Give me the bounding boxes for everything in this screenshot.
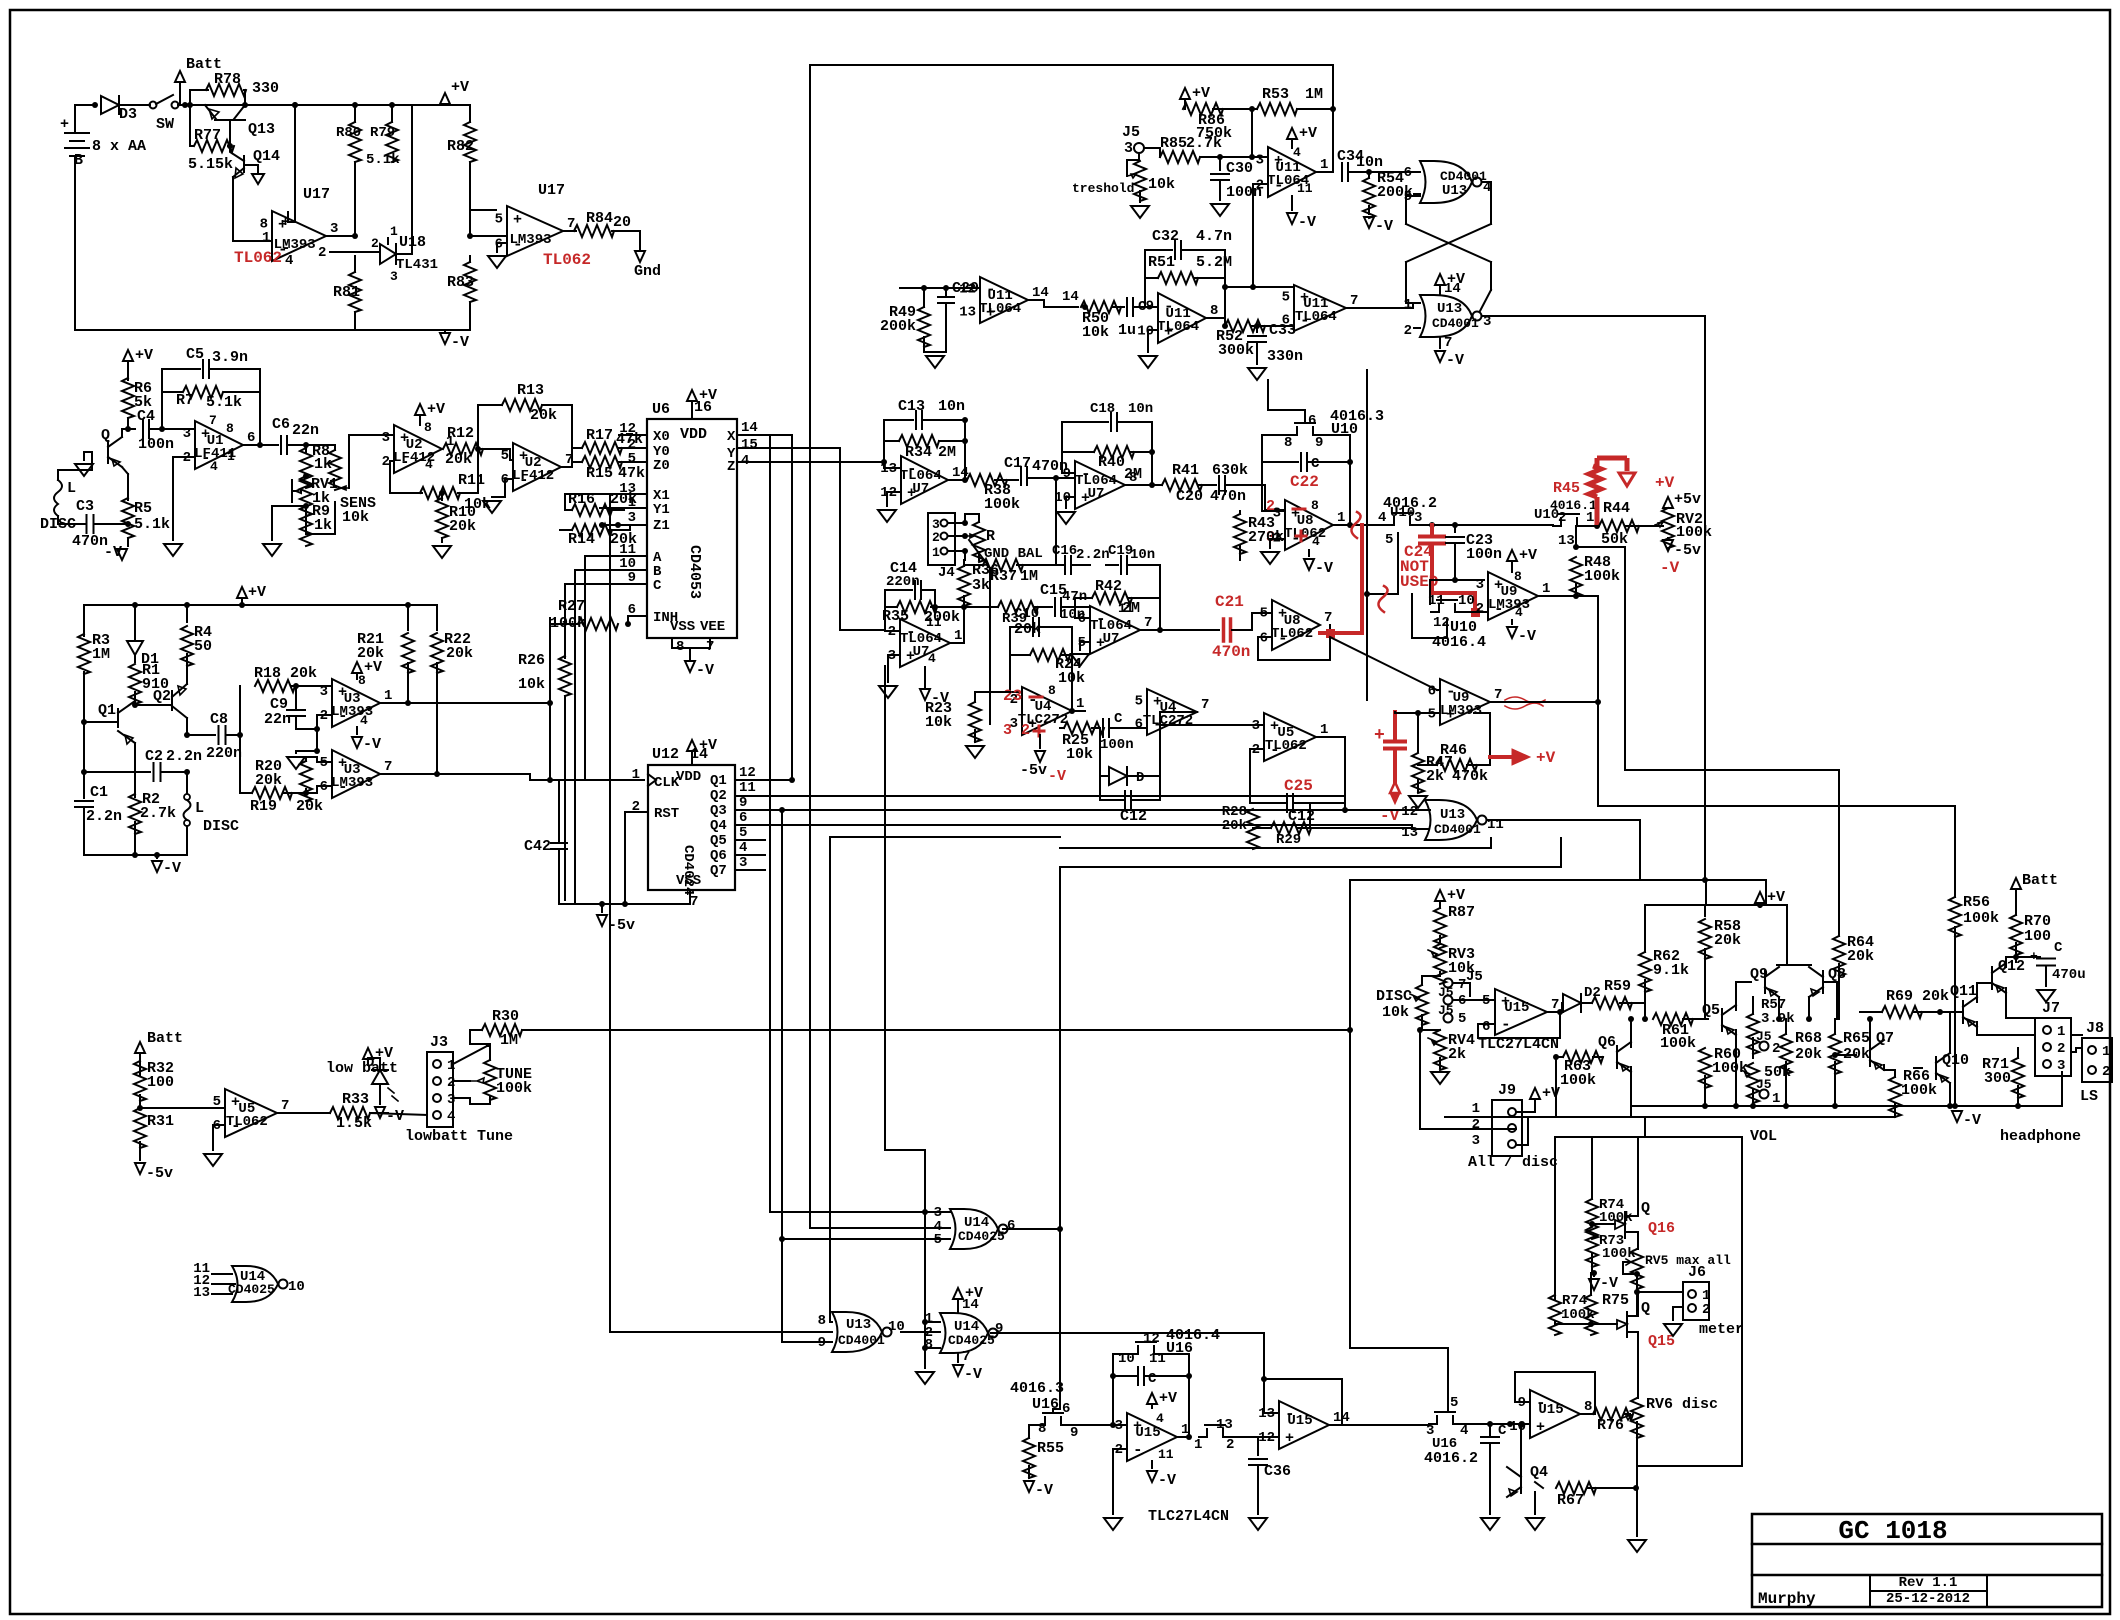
svg-text:100k: 100k <box>1584 568 1620 585</box>
resistor R66 100k <box>1889 1077 1901 1117</box>
resistor R16 20k <box>572 504 612 516</box>
svg-text:14: 14 <box>962 1297 979 1313</box>
svg-text:6: 6 <box>247 430 255 446</box>
pot RV4 2k <box>1434 1030 1446 1070</box>
pot DISC 10k <box>1416 985 1428 1025</box>
svg-text:100: 100 <box>2024 928 2051 945</box>
svg-text:10n: 10n <box>1130 547 1155 563</box>
svg-text:12: 12 <box>739 765 756 781</box>
capacitor C12b <box>1250 749 1264 803</box>
svg-text:2: 2 <box>1404 323 1412 339</box>
ground RV6 <box>1628 1540 1646 1552</box>
svg-text:Q5: Q5 <box>1702 1002 1720 1019</box>
svg-text:U15: U15 <box>1538 1402 1563 1418</box>
resistor R27 100k <box>627 616 629 624</box>
resistor R46 470k <box>1437 759 1477 771</box>
coil L DISC <box>54 470 62 524</box>
svg-text:Q2: Q2 <box>710 788 727 804</box>
svg-text:Q2: Q2 <box>153 688 171 705</box>
svg-text:VSS: VSS <box>670 619 695 635</box>
svg-text:U16: U16 <box>1032 1396 1059 1413</box>
op-amp U15b TLC27L4CN <box>1279 1401 1329 1449</box>
pot TUNE 100k <box>484 1060 496 1100</box>
svg-text:6: 6 <box>1428 684 1436 700</box>
svg-text:1M: 1M <box>500 1032 518 1049</box>
svg-text:10n: 10n <box>1356 154 1383 171</box>
svg-text:+V: +V <box>1159 1390 1177 1407</box>
op-amp U11a TL064 <box>1268 147 1316 197</box>
svg-text:TL062: TL062 <box>1284 526 1326 542</box>
svg-text:2.2n: 2.2n <box>1076 547 1110 563</box>
VOL rail <box>1445 1103 1895 1117</box>
-5v arrow U12 <box>601 904 603 912</box>
svg-text:1: 1 <box>1404 297 1412 313</box>
svg-text:R13: R13 <box>517 382 544 399</box>
svg-text:1: 1 <box>384 688 392 704</box>
svg-text:U13: U13 <box>1442 183 1467 199</box>
svg-text:20k: 20k <box>445 451 472 468</box>
svg-text:R53: R53 <box>1262 86 1289 103</box>
svg-text:TL062: TL062 <box>543 251 591 269</box>
wire U8a pins <box>1262 462 1285 548</box>
+V arrow U14b <box>953 1288 963 1299</box>
svg-text:4: 4 <box>360 713 368 728</box>
-V arrow meter <box>1593 1273 1595 1276</box>
svg-text:R55: R55 <box>1037 1440 1064 1457</box>
svg-text:1: 1 <box>632 767 640 783</box>
wire <box>458 449 478 493</box>
capacitor C10 10n <box>1033 618 1039 636</box>
svg-text:R42: R42 <box>1095 578 1122 595</box>
wire to U2 <box>349 435 394 488</box>
svg-text:CD4001: CD4001 <box>1440 169 1487 184</box>
bus x925 <box>924 1150 926 1368</box>
svg-text:3: 3 <box>1256 153 1264 169</box>
pot RV1 1k <box>300 476 312 516</box>
connector J5 circles disc <box>1444 979 1453 988</box>
svg-text:R56: R56 <box>1963 894 1990 911</box>
svg-text:LM393: LM393 <box>331 775 373 791</box>
wire U13d out <box>901 1331 940 1333</box>
svg-text:2: 2 <box>371 236 379 251</box>
ground <box>263 544 281 556</box>
svg-text:22n: 22n <box>292 422 319 439</box>
resistor R84 20 <box>563 230 576 232</box>
svg-text:9: 9 <box>1315 435 1323 451</box>
resistor R87 <box>1434 908 1446 948</box>
svg-text:DISC: DISC <box>203 818 239 835</box>
+V arrow U11a <box>1287 128 1297 139</box>
svg-text:+V: +V <box>1536 749 1556 767</box>
wire bus y796 <box>735 795 1345 797</box>
svg-text:CD4025: CD4025 <box>228 1282 275 1297</box>
svg-text:Q: Q <box>101 427 110 444</box>
svg-text:GND BAL: GND BAL <box>984 546 1043 562</box>
svg-text:All / disc: All / disc <box>1468 1154 1558 1171</box>
op-amp U3a LM393 <box>332 679 380 727</box>
wire U11a pin2 <box>1253 184 1268 287</box>
wire top bus <box>810 65 1333 1228</box>
capacitor C21 red 470n <box>1216 629 1219 631</box>
op-amp U15d TLC27L4CN <box>1495 989 1547 1035</box>
svg-text:C13: C13 <box>898 398 925 415</box>
svg-text:Q5: Q5 <box>710 833 727 849</box>
capacitor C14 220n <box>885 590 912 631</box>
resistor R26 10k <box>564 640 566 658</box>
cross-coupled wires U13 <box>1406 182 1491 303</box>
resistor R71 300 <box>2012 1058 2024 1098</box>
svg-text:SW: SW <box>156 116 174 133</box>
svg-text:20k: 20k <box>446 645 473 662</box>
connector J7 <box>2035 1018 2071 1076</box>
+V arrow U6 <box>687 390 697 401</box>
svg-text:R30: R30 <box>492 1008 519 1025</box>
svg-text:U6: U6 <box>652 401 670 418</box>
svg-text:3: 3 <box>447 1092 455 1108</box>
resistor R62 9.1k <box>1644 905 1646 952</box>
svg-text:2: 2 <box>1476 601 1484 617</box>
wire after 4016.2 <box>1418 524 1553 526</box>
svg-text:Q15: Q15 <box>1648 1333 1675 1350</box>
svg-text:-V: -V <box>1660 559 1680 577</box>
wire U3b out to CLK <box>380 774 644 780</box>
resistor R8 1k <box>305 445 307 452</box>
resistor R54 200k <box>1368 172 1370 178</box>
svg-text:C17: C17 <box>1004 455 1031 472</box>
svg-text:4: 4 <box>1156 1411 1164 1426</box>
ground <box>164 544 182 556</box>
switch SW <box>150 102 157 109</box>
svg-text:LS: LS <box>2080 1088 2098 1105</box>
capacitor C1 2.2n <box>83 772 85 798</box>
resistor R36 3k <box>958 566 970 606</box>
svg-text:C1: C1 <box>90 784 108 801</box>
svg-text:4016.4: 4016.4 <box>1432 634 1486 651</box>
clk wedge <box>648 774 656 786</box>
svg-text:100k: 100k <box>496 1080 532 1097</box>
svg-text:7: 7 <box>1444 335 1452 351</box>
svg-text:-V: -V <box>1298 214 1316 231</box>
svg-text:4016.2: 4016.2 <box>1424 1450 1478 1467</box>
IC U12 CD4024 <box>648 765 735 890</box>
wire U7a out <box>948 479 965 481</box>
svg-text:Batt: Batt <box>2022 872 2058 889</box>
svg-text:Q: Q <box>1641 1300 1650 1317</box>
svg-text:11: 11 <box>1158 1447 1174 1462</box>
resistor R30 1M <box>482 1024 522 1036</box>
wire J9 lines <box>1420 1030 1516 1129</box>
svg-text:+V: +V <box>1542 1085 1560 1102</box>
red wire U8b out <box>1320 525 1362 633</box>
op-amp U5b TL062 <box>1264 713 1316 761</box>
svg-text:330: 330 <box>252 80 279 97</box>
resistor R28 20k <box>1247 809 1259 849</box>
resistor R57 3.9k <box>1747 1014 1759 1054</box>
svg-text:C20: C20 <box>1176 488 1203 505</box>
svg-text:6: 6 <box>1135 717 1143 733</box>
svg-text:2M: 2M <box>1124 466 1142 483</box>
ground treshold <box>1131 206 1149 218</box>
resistor R41 630k <box>1162 479 1202 491</box>
svg-text:10k: 10k <box>518 676 545 693</box>
wire <box>128 418 135 429</box>
svg-text:50k: 50k <box>1601 531 1628 548</box>
wire TUNE <box>453 1030 490 1104</box>
pot RV2 100k <box>1655 522 1663 527</box>
wire U6 VSS VEE <box>672 638 710 658</box>
svg-text:+V: +V <box>375 1045 393 1062</box>
svg-text:D2: D2 <box>1584 985 1601 1001</box>
svg-text:4.7n: 4.7n <box>1196 228 1232 245</box>
resistor R43 270k <box>1234 514 1246 554</box>
svg-text:TLC27L4CN: TLC27L4CN <box>1148 1508 1229 1525</box>
+V arrow U3a <box>352 662 362 673</box>
svg-text:20k: 20k <box>1847 948 1874 965</box>
svg-text:R40: R40 <box>1098 454 1125 471</box>
svg-text:2: 2 <box>1256 178 1264 194</box>
svg-text:LM393: LM393 <box>510 232 552 248</box>
second rail VOL <box>1555 1057 1557 1117</box>
diagonal wire to U9b <box>1330 637 1440 690</box>
svg-text:2: 2 <box>1472 1117 1480 1133</box>
svg-text:4: 4 <box>1312 534 1320 549</box>
wire to U18 <box>330 251 380 253</box>
resistor R9 1k <box>300 506 312 546</box>
resistor R65 20k <box>1829 1034 1841 1074</box>
svg-text:TL062: TL062 <box>1271 626 1313 642</box>
wire U7d out <box>950 607 964 643</box>
wire U7c pin9 <box>1056 477 1075 479</box>
capacitor C 1u <box>1113 306 1124 308</box>
svg-text:Murphy: Murphy <box>1758 1590 1816 1608</box>
resistor R63 100k <box>1563 1051 1603 1063</box>
svg-text:7: 7 <box>1350 293 1358 309</box>
svg-text:11: 11 <box>926 615 942 630</box>
svg-text:R78: R78 <box>214 71 241 88</box>
op-amp U4b TLC272 <box>1147 689 1197 735</box>
capacitor C30 100n <box>1217 154 1223 160</box>
svg-text:2.2n: 2.2n <box>86 808 122 825</box>
ground U7d pin3 <box>888 655 900 682</box>
svg-text:VSS: VSS <box>676 873 701 889</box>
svg-text:R82: R82 <box>447 138 474 155</box>
pot RV6 disc <box>1631 1398 1643 1438</box>
-V arrow R54 <box>1364 217 1374 228</box>
svg-text:CD4053: CD4053 <box>686 545 703 599</box>
resistor R17 47k <box>582 442 622 454</box>
wire output rails <box>2061 1072 2063 1106</box>
wire top rail <box>266 104 470 106</box>
wire <box>572 448 647 467</box>
svg-text:100k: 100k <box>1712 1060 1748 1077</box>
battery B 8xAA <box>65 133 89 156</box>
-V arrow bottom <box>440 333 450 344</box>
svg-text:1k: 1k <box>314 517 332 534</box>
wire U15b in12 <box>1258 1436 1279 1438</box>
wire U15d pin6 <box>1478 1012 1560 1038</box>
svg-text:C10: C10 <box>1014 606 1039 622</box>
svg-text:Q4: Q4 <box>710 818 727 834</box>
svg-text:1M: 1M <box>92 646 110 663</box>
wire U17a supply <box>288 105 295 222</box>
svg-text:C: C <box>653 578 662 594</box>
Batt arrow lowbatt <box>135 1042 145 1053</box>
svg-text:8: 8 <box>226 421 234 436</box>
svg-text:LM393: LM393 <box>1440 703 1482 719</box>
svg-text:10k: 10k <box>925 714 952 731</box>
svg-text:C16: C16 <box>1052 543 1077 559</box>
capacitor C19 10n <box>1106 564 1118 566</box>
wire U9b pin5 <box>1395 712 1440 713</box>
-V arrow U8a <box>1308 550 1310 556</box>
-5v arrow U4a <box>1039 735 1041 748</box>
svg-text:5.1k: 5.1k <box>134 516 170 533</box>
svg-text:R5: R5 <box>134 500 152 517</box>
svg-text:1: 1 <box>1320 722 1328 738</box>
resistor R5 5.1k <box>122 467 128 500</box>
svg-text:3: 3 <box>382 430 390 446</box>
svg-text:C: C <box>1114 711 1123 727</box>
resistor R34 2M <box>899 435 939 447</box>
svg-text:10n: 10n <box>1128 401 1153 417</box>
svg-text:Q12: Q12 <box>1998 958 2025 975</box>
capacitor C16 2.2n <box>1065 556 1071 574</box>
svg-text:8: 8 <box>1584 1399 1592 1415</box>
resistor R3 1M <box>83 605 85 636</box>
svg-text:LF412: LF412 <box>512 468 554 484</box>
svg-text:J6: J6 <box>1688 1264 1706 1281</box>
svg-text:C32: C32 <box>1152 228 1179 245</box>
svg-text:3: 3 <box>320 684 328 700</box>
svg-text:6: 6 <box>739 810 747 826</box>
svg-text:C: C <box>1498 1423 1507 1439</box>
svg-text:4: 4 <box>425 457 433 472</box>
svg-text:9.1k: 9.1k <box>1653 962 1689 979</box>
svg-text:R41: R41 <box>1172 462 1199 479</box>
svg-text:Z: Z <box>727 459 735 475</box>
svg-text:-V: -V <box>1048 768 1066 785</box>
svg-text:1M: 1M <box>1020 568 1038 585</box>
svg-text:8 x AA: 8 x AA <box>92 138 146 155</box>
transistor Q13 <box>205 105 245 146</box>
svg-text:C3: C3 <box>76 498 94 515</box>
-V arrow osc <box>156 855 158 858</box>
svg-text:10k: 10k <box>1082 324 1109 341</box>
svg-text:1: 1 <box>1542 581 1550 597</box>
resistor R21 20k <box>407 605 409 630</box>
wire RV5 to J6 <box>1636 1274 1638 1316</box>
op-amp U8a TL062 <box>1285 500 1333 550</box>
wire Q12 collector <box>2006 957 2016 967</box>
svg-text:5.1k: 5.1k <box>366 152 400 168</box>
-V arrow U6 <box>685 661 695 672</box>
resistor R2 2.7k <box>129 794 141 834</box>
svg-text:4: 4 <box>928 651 936 666</box>
svg-text:300: 300 <box>1984 1070 2011 1087</box>
transistor Q14 <box>230 146 272 241</box>
wire meter box <box>1555 1137 1742 1466</box>
svg-text:U15: U15 <box>1287 1413 1312 1429</box>
wire <box>1252 109 1268 157</box>
svg-text:C25: C25 <box>1284 777 1313 795</box>
svg-text:7: 7 <box>690 894 698 910</box>
-V arrow output <box>1952 1111 1962 1122</box>
svg-text:23: 23 <box>1003 687 1022 705</box>
svg-text:-V: -V <box>104 544 122 561</box>
svg-text:630k: 630k <box>1212 462 1248 479</box>
svg-text:12: 12 <box>1143 1331 1160 1347</box>
wire LED <box>368 1058 380 1070</box>
svg-text:-V: -V <box>964 1366 982 1383</box>
resistor R10 20k <box>439 490 445 496</box>
node <box>92 102 98 108</box>
svg-text:-: - <box>1501 1016 1511 1034</box>
svg-text:C: C <box>1148 1371 1157 1387</box>
svg-text:R19: R19 <box>250 798 277 815</box>
op-amp U15c TLC27L4CN <box>1530 1390 1580 1438</box>
svg-text:2.2n: 2.2n <box>166 748 202 765</box>
gate U14b CD4025 <box>940 1313 988 1353</box>
svg-text:U15: U15 <box>1504 1000 1529 1016</box>
ground U8a <box>1261 552 1279 564</box>
ground U7a pin12 <box>887 492 901 506</box>
resistor R23 10k <box>969 702 981 742</box>
svg-text:8: 8 <box>1514 569 1522 584</box>
svg-text:+V: +V <box>248 584 266 601</box>
resistor R83 <box>464 262 476 302</box>
svg-text:20k: 20k <box>1795 1046 1822 1063</box>
svg-text:5: 5 <box>1458 1011 1466 1027</box>
svg-text:+5v: +5v <box>1674 491 1701 508</box>
svg-text:U13: U13 <box>1437 301 1462 317</box>
svg-text:R17: R17 <box>586 427 613 444</box>
svg-text:treshold: treshold <box>1072 181 1134 196</box>
wire bus y867 <box>1060 838 1561 867</box>
svg-text:L: L <box>195 800 204 817</box>
svg-text:7: 7 <box>209 413 217 428</box>
diagonal wire gnd bal <box>969 540 990 724</box>
op-amp U9b LM393 <box>1440 679 1490 725</box>
wire U3a out <box>380 703 550 704</box>
svg-text:13: 13 <box>1558 533 1575 549</box>
resistor R33 1.5k <box>277 1112 330 1114</box>
svg-text:100k: 100k <box>984 496 1020 513</box>
svg-text:100k: 100k <box>1602 1246 1636 1262</box>
svg-text:CD4001: CD4001 <box>1432 316 1479 331</box>
resistor R47 2k <box>1417 713 1419 752</box>
wire <box>211 369 260 445</box>
wire osc top rail <box>84 604 437 606</box>
capacitor C22 C <box>1262 461 1298 463</box>
wire U9a out right <box>1538 596 1955 877</box>
svg-text:Rev 1.1: Rev 1.1 <box>1899 1575 1958 1591</box>
transistor Q6 <box>1616 1046 1618 1068</box>
svg-text:3: 3 <box>1472 1133 1480 1149</box>
wire <box>391 105 393 122</box>
capacitor C 4016.4b <box>1113 1354 1189 1376</box>
svg-text:R34: R34 <box>905 444 932 461</box>
resistor R86 750k <box>1180 88 1190 99</box>
svg-text:C36: C36 <box>1264 1463 1291 1480</box>
transistor Q7 <box>1869 1044 1871 1066</box>
svg-text:6: 6 <box>1260 631 1268 647</box>
op-amp U2b LF412 <box>513 443 561 491</box>
svg-text:TL064: TL064 <box>1295 309 1337 325</box>
capacitor C29 <box>938 297 954 303</box>
svg-text:+V: +V <box>135 347 153 364</box>
red squiggle 2 <box>1378 586 1387 612</box>
wire U9b out <box>1490 701 1598 703</box>
